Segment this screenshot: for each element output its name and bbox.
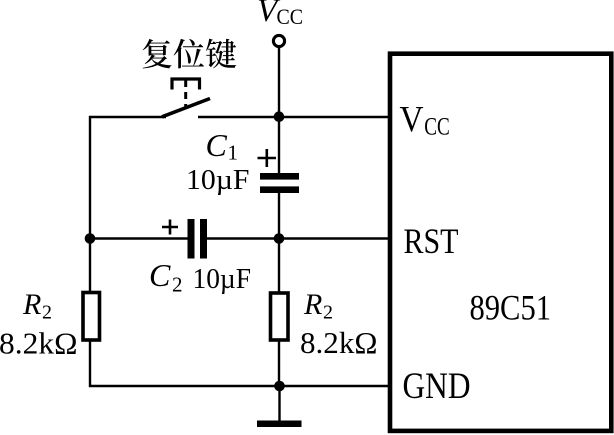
svg-text:1: 1 <box>228 141 239 165</box>
svg-text:2: 2 <box>323 302 333 324</box>
pushbutton actuator bracket <box>172 79 200 90</box>
svg-text:8.2kΩ: 8.2kΩ <box>300 325 378 360</box>
svg-text:R: R <box>303 288 322 321</box>
node junction GND net / ground stub <box>274 381 285 392</box>
svg-text:C: C <box>206 127 228 163</box>
IC pin label VCC <box>400 100 450 141</box>
label 复位键 (reset key) char 位 <box>174 39 204 69</box>
svg-text:CC: CC <box>277 4 304 29</box>
svg-text:10µF: 10µF <box>193 263 252 295</box>
svg-text:8.2kΩ: 8.2kΩ <box>0 326 78 361</box>
resistor R2 left body <box>83 293 100 341</box>
wire RST net left segment (left rail to C2 left plate) <box>90 237 188 239</box>
node junction right rail / RST net <box>274 233 285 244</box>
svg-text:R: R <box>22 288 41 321</box>
wire RST net right segment (C2 right plate to IC RST pin) <box>207 237 390 239</box>
pushbutton switch S (reset key) blade <box>162 99 210 117</box>
wire RST node to left resistor top <box>89 239 91 294</box>
label R2 (right resistor) <box>303 288 333 324</box>
svg-text:C: C <box>149 257 171 293</box>
VCC terminal (open circle) <box>273 35 284 46</box>
wire right resistor bottom to GND net <box>278 340 280 387</box>
label 复位键 (reset key) char 复 <box>143 39 172 69</box>
wire ground stub <box>278 386 280 421</box>
wire VCC rail vertical (terminal to C1 top plate) <box>278 48 280 175</box>
wire left rail vertical <box>89 116 91 239</box>
capacitor C1 bottom plate <box>260 186 299 193</box>
wire left resistor bottom to GND net <box>89 340 91 387</box>
label C2 10uF <box>149 257 251 297</box>
wire switch right contact to IC VCC pin <box>198 116 390 118</box>
capacitor C2 right plate <box>200 219 207 259</box>
polarity + of C2 <box>162 220 178 235</box>
polarity + of C1 <box>258 149 277 167</box>
node junction left rail / RST net <box>85 233 96 244</box>
net VCC supply label <box>257 0 303 29</box>
node junction VCC rail / top wire <box>274 111 285 122</box>
wire C1 bottom plate to RST node <box>278 193 280 239</box>
pushbutton actuator dashed shaft <box>184 80 187 109</box>
ground symbol bar <box>257 421 302 428</box>
wire GND net bottom horizontal <box>89 385 390 387</box>
resistor R2 right body <box>271 293 289 340</box>
wire right rail RST node to right resistor top <box>278 239 280 295</box>
svg-text:V: V <box>400 100 424 141</box>
capacitor C2 left plate <box>188 219 195 259</box>
wire left top horizontal (left rail to switch left contact) <box>89 116 166 118</box>
capacitor C1 top plate <box>260 173 299 180</box>
label 复位键 (reset key) char 键 <box>206 39 236 69</box>
IC U1 89C51 box <box>390 54 611 431</box>
label R2 (left resistor) <box>22 288 52 324</box>
svg-text:RST: RST <box>404 221 459 261</box>
svg-text:89C51: 89C51 <box>470 288 552 328</box>
svg-text:10µF: 10µF <box>186 164 250 196</box>
svg-text:2: 2 <box>42 302 52 324</box>
svg-text:2: 2 <box>172 273 183 297</box>
svg-text:CC: CC <box>424 114 450 141</box>
svg-text:GND: GND <box>403 366 471 407</box>
label C1 <box>206 127 239 165</box>
